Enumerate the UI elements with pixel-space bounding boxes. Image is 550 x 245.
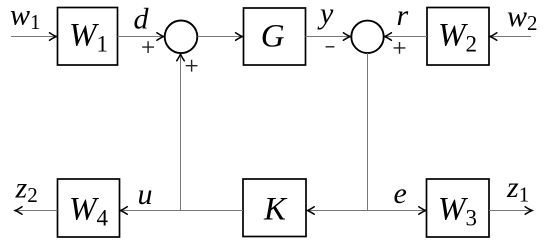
wire junction to W3 — [368, 210, 426, 212]
svg-text:K: K — [263, 192, 288, 228]
svg-text:W3: W3 — [438, 192, 477, 231]
wire W4 to z2 — [16, 210, 58, 212]
svg-text:G: G — [261, 18, 285, 54]
svg-text:z2: z2 — [15, 172, 38, 208]
svg-text:W2: W2 — [438, 17, 477, 56]
sign plus at S1 bottom — [186, 60, 198, 72]
svg-text:e: e — [394, 177, 407, 210]
block K — [243, 179, 306, 237]
block W3 — [427, 179, 490, 237]
wire S1 to G — [198, 36, 242, 38]
svg-text:W1: W1 — [69, 17, 108, 56]
wire W1 to S1 — [118, 36, 164, 38]
wire w1 input — [11, 36, 56, 38]
svg-text:r: r — [397, 0, 409, 32]
svg-text:z1: z1 — [506, 171, 529, 207]
svg-text:y: y — [317, 0, 334, 30]
svg-text:W4: W4 — [69, 192, 109, 231]
wire W2 to S2 — [385, 36, 427, 38]
svg-text:w2: w2 — [507, 0, 538, 35]
wire junction to K — [308, 210, 368, 212]
wire feedback up into S1 — [180, 55, 182, 211]
wire S2 down — [367, 53, 369, 210]
wire K output to W4 — [121, 210, 243, 212]
svg-text:d: d — [134, 3, 150, 36]
block G — [244, 8, 306, 65]
summing junction S1 — [165, 21, 198, 54]
block W4 — [58, 179, 120, 237]
wire w2 input — [491, 36, 532, 38]
svg-text:w1: w1 — [10, 0, 41, 34]
block W2 — [427, 8, 489, 66]
wire G to S2 — [306, 36, 350, 38]
wire W3 to z1 — [489, 210, 531, 212]
block W1 — [58, 8, 118, 66]
sign minus at S2 left — [326, 46, 335, 48]
sign plus at S2 right — [394, 42, 406, 54]
svg-text:u: u — [138, 178, 153, 211]
summing junction S2 — [351, 21, 383, 53]
sign plus at S1 left — [142, 41, 154, 53]
